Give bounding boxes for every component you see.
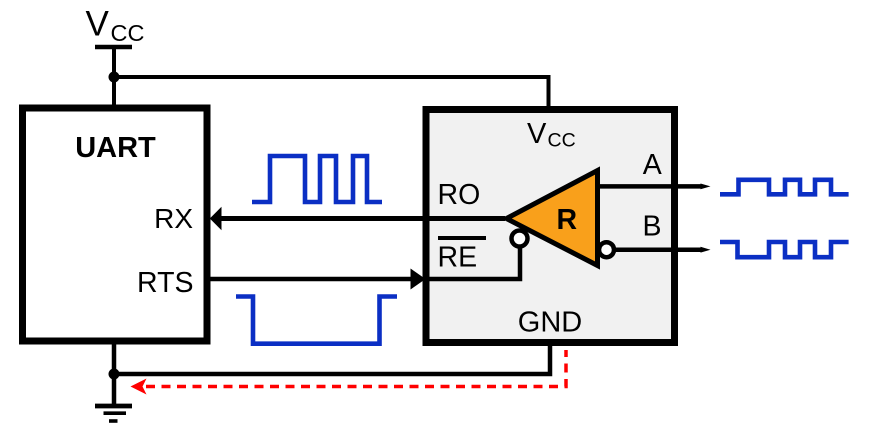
power Vcc label [86,5,145,46]
wire RE inside receiver from arrow to bubble [424,247,520,279]
node Vcc junction [109,72,120,83]
pin Vcc label of receiver [527,118,576,152]
wire UART ground down [112,341,117,404]
wire GND from receiver to junction [114,344,550,374]
arrowhead into receiver RE [411,269,426,290]
wire Vcc top horizontal to receiver [114,77,549,110]
UART box [23,108,208,341]
svg-text:RE: RE [438,242,478,274]
waveform B (blue) [720,242,849,257]
bubble on RE enable input [512,231,528,247]
pin A label [643,149,662,181]
svg-text:R: R [557,204,578,236]
pin RE label with overline [438,238,487,274]
power Vcc symbol bar [95,45,132,50]
svg-text:GND: GND [518,307,582,339]
bubble on B input [599,242,614,257]
svg-text:RTS: RTS [137,267,194,299]
arrowhead tip of A wire [701,184,711,190]
svg-text:RO: RO [438,179,481,211]
svg-text:UART: UART [75,132,156,164]
red dashed ground return path [146,350,566,387]
svg-text:B: B [643,211,662,243]
svg-text:V: V [527,118,547,150]
svg-text:A: A [643,149,662,181]
pin GND label [518,307,582,339]
svg-text:CC: CC [548,130,576,152]
wire B from bubble to outside [614,247,701,252]
ground symbol [95,406,132,421]
UART label [75,132,156,164]
wire RX from receiver RO to UART [219,216,505,221]
waveform A (blue) [720,180,849,195]
pin RX label [154,203,193,234]
arrowhead into UART RX [210,207,222,230]
svg-text:RX: RX [154,203,193,234]
waveform RTS (blue) [236,297,397,344]
pin B label [643,211,662,243]
pin RO label [438,179,481,211]
node ground junction [109,369,120,380]
wire A from triangle to outside [598,184,702,189]
arrowhead tip of B wire [701,247,711,253]
red arrowhead to ground node [131,379,147,395]
receiver box U1 [426,110,675,343]
wire RTS from UART to receiver RE [207,277,412,282]
pin RTS label [137,267,194,299]
waveform RX (blue) [252,156,382,202]
wire Vcc vertical from bar to junction [112,47,116,108]
svg-text:V: V [86,5,110,44]
op-amp receiver triangle R [507,171,598,266]
receiver R label [557,204,578,236]
svg-text:CC: CC [111,20,145,46]
